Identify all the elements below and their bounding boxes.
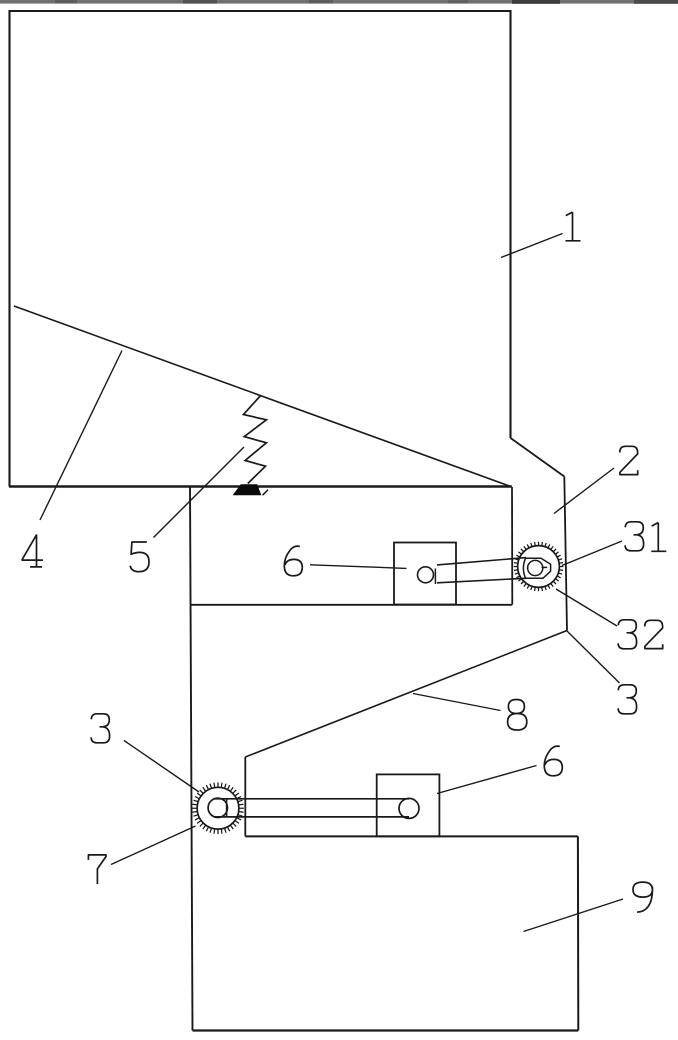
label 7 — [88, 855, 106, 884]
spring 5 zigzag — [243, 396, 266, 484]
leader to label 6 lower — [437, 766, 537, 794]
label 32 — [618, 620, 637, 649]
leader to label 4 — [40, 351, 122, 521]
upper connecting rod top edge — [437, 558, 526, 565]
label 3 lower left — [91, 714, 110, 743]
leader to label 31 — [562, 541, 622, 566]
label 2 — [620, 446, 638, 474]
base 9 : bottom edge — [193, 1029, 579, 1031]
label 31 — [625, 522, 644, 551]
upper housing bottom edge — [191, 604, 513, 606]
leader to label 9 — [524, 899, 624, 932]
leader to label 2 — [554, 468, 614, 514]
slider block 6 lower : small rectangle — [377, 774, 440, 836]
base 9 : top edge — [245, 835, 578, 837]
label 5 — [130, 542, 149, 572]
upper housing right edge — [511, 487, 513, 605]
label 3 right — [618, 685, 637, 714]
lower frame left edge — [244, 757, 246, 836]
bracket 2 : chamfer from body to side plate — [511, 438, 565, 477]
leader to label 32 — [556, 589, 617, 626]
spring 5 anchor arrow — [233, 484, 262, 495]
leader to label 3 lower left — [124, 741, 199, 793]
leader to label 7 — [111, 826, 196, 865]
gear 3 lower : teeth — [192, 782, 244, 834]
leader to label 5 — [154, 447, 245, 538]
spring anchor hatch tick — [263, 490, 268, 496]
gear 3 lower : rim — [197, 787, 239, 829]
label 4 — [22, 534, 43, 567]
lower connecting rod bottom edge — [214, 816, 409, 818]
upper connecting rod bottom edge — [437, 578, 527, 583]
scanner artifact gray band top — [0, 0, 678, 4]
lower connecting rod top edge — [214, 798, 409, 800]
gear 3 upper : rim — [518, 546, 560, 588]
gear shaft pin 32 upper — [528, 560, 543, 575]
upper link end tick — [434, 569, 436, 585]
leader to label 1 — [501, 234, 563, 258]
pin key tick upper — [542, 566, 548, 568]
press body 1 : outer rectangle — [10, 11, 511, 487]
label 1 — [566, 212, 581, 241]
slider block 6 upper : small rectangle — [394, 543, 456, 605]
press body 1 bottom edge — [9, 485, 512, 488]
upper link pin circle — [418, 567, 434, 583]
gear 3 upper : teeth — [514, 542, 564, 592]
label 6 lower — [544, 746, 562, 776]
leader to label 3 right — [567, 631, 620, 683]
bracket 2 : right vertical plate edge — [564, 477, 567, 631]
label 9 — [633, 882, 652, 912]
label 8 — [508, 700, 527, 731]
gear 3 upper : rod end cap 31 — [523, 558, 550, 578]
gear shaft pin 7 : lower pin circle — [208, 798, 227, 817]
inclined surface 4 : interior diagonal — [14, 306, 512, 487]
base 9 : right edge — [577, 836, 579, 1030]
leader to label 8 — [413, 694, 501, 711]
lower rod end tick — [226, 799, 228, 817]
label 6 upper — [284, 546, 302, 576]
left column vertical edge — [190, 487, 193, 1031]
swing arm 8 : long diagonal link — [245, 631, 567, 758]
lower link pin circle — [399, 798, 419, 818]
leader to label 6 upper — [310, 565, 407, 569]
